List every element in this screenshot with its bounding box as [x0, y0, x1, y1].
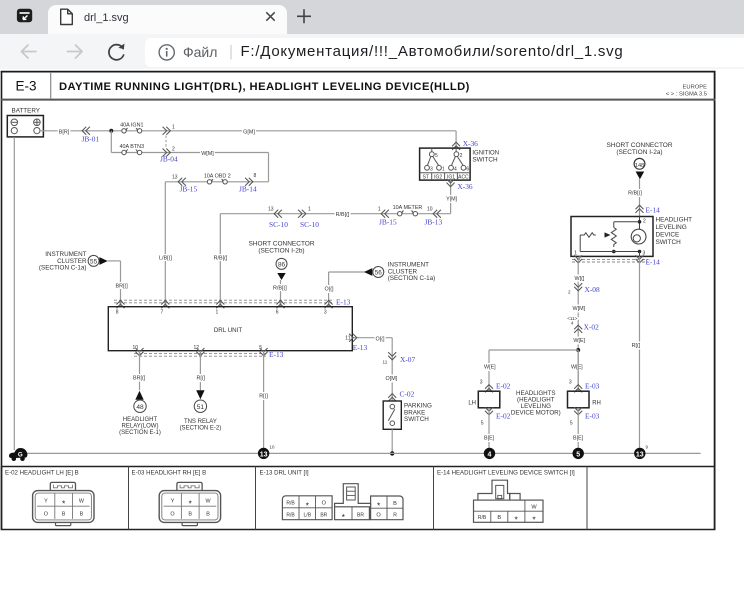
svg-text:(SECTION C-1a): (SECTION C-1a) [39, 265, 87, 272]
svg-text:Y[M]: Y[M] [446, 197, 458, 203]
svg-text:E-3: E-3 [15, 79, 36, 94]
svg-text:R: R [393, 513, 397, 519]
svg-text:*: * [306, 500, 310, 510]
svg-text:5: 5 [481, 421, 484, 427]
svg-text:56: 56 [375, 270, 383, 277]
svg-text:2: 2 [643, 219, 646, 225]
svg-text:3: 3 [569, 379, 572, 385]
svg-text:BR[(]: BR[(] [116, 284, 129, 290]
svg-text:R/B: R/B [286, 512, 295, 518]
svg-text:TNS RELAY: TNS RELAY [184, 419, 217, 425]
svg-text:4: 4 [454, 167, 457, 173]
svg-text:RELAY(LOW): RELAY(LOW) [122, 423, 159, 429]
svg-text:1: 1 [308, 207, 311, 213]
svg-text:G[M]: G[M] [243, 129, 255, 135]
svg-text:X-36: X-36 [463, 139, 478, 148]
svg-text:E-03: E-03 [585, 411, 600, 420]
svg-text:48: 48 [136, 404, 144, 411]
svg-text:< > : SIGMA 3.5: < > : SIGMA 3.5 [666, 92, 707, 98]
svg-text:51: 51 [197, 404, 205, 411]
svg-text:B: B [62, 511, 66, 517]
svg-text:*: * [532, 515, 536, 525]
svg-text:B[E]: B[E] [573, 435, 584, 441]
svg-text:86: 86 [278, 261, 286, 268]
svg-text:SC-10: SC-10 [300, 220, 319, 229]
svg-text:8: 8 [116, 309, 119, 315]
svg-text:SWITCH: SWITCH [472, 157, 498, 164]
svg-text:E-13: E-13 [336, 298, 351, 307]
svg-text:9: 9 [646, 445, 649, 450]
svg-text:*: * [377, 501, 381, 511]
svg-text:*: * [342, 512, 346, 522]
svg-text:L/B[(]: L/B[(] [159, 255, 172, 261]
svg-text:E-14 HEADLIGHT LEVELING DEVICE: E-14 HEADLIGHT LEVELING DEVICE SWITCH [I… [437, 470, 575, 477]
svg-text:1: 1 [442, 167, 445, 173]
svg-text:E-02: E-02 [496, 381, 511, 390]
svg-text:DAYTIME RUNNING LIGHT(DRL), HE: DAYTIME RUNNING LIGHT(DRL), HEADLIGHT LE… [59, 81, 470, 93]
svg-text:JB-15: JB-15 [180, 184, 198, 193]
svg-text:JB-13: JB-13 [425, 218, 443, 227]
svg-text:10: 10 [427, 207, 433, 213]
svg-text:R/B: R/B [286, 501, 295, 507]
svg-text:R/B: R/B [478, 515, 487, 521]
svg-text:W: W [79, 499, 85, 505]
svg-text:7: 7 [161, 309, 164, 315]
svg-text:SHORT CONNECTOR: SHORT CONNECTOR [248, 241, 314, 248]
svg-text:O[(]: O[(] [376, 336, 385, 342]
svg-text:13: 13 [260, 451, 268, 458]
svg-text:JB-15: JB-15 [379, 218, 397, 227]
svg-text:X-36: X-36 [457, 182, 472, 191]
svg-text:3: 3 [480, 379, 483, 385]
svg-text:R/B[(]: R/B[(] [336, 212, 350, 218]
svg-text:W[E]: W[E] [571, 364, 583, 370]
svg-text:O: O [376, 513, 381, 519]
svg-text:R/B[(]: R/B[(] [628, 191, 642, 197]
svg-text:R/B[(]: R/B[(] [214, 255, 228, 261]
svg-text:8: 8 [254, 173, 257, 179]
svg-text:E-14: E-14 [646, 206, 661, 215]
svg-text:JB-04: JB-04 [160, 155, 178, 164]
svg-text:B[R]: B[R] [59, 129, 70, 135]
svg-text:4: 4 [488, 451, 492, 458]
svg-text:Y: Y [44, 499, 48, 505]
svg-text:JB-14: JB-14 [239, 184, 257, 193]
svg-text:DEVICE MOTOR): DEVICE MOTOR) [511, 410, 561, 417]
svg-text:W: W [531, 505, 537, 511]
svg-text:1: 1 [378, 207, 381, 213]
svg-text:RH: RH [592, 400, 601, 406]
svg-text:E-03: E-03 [585, 381, 600, 390]
svg-text:55: 55 [90, 258, 98, 265]
svg-text:W[E]: W[E] [573, 338, 585, 344]
svg-text:5: 5 [435, 153, 438, 159]
svg-text:2: 2 [568, 290, 571, 295]
svg-text:(SECTION I-2a): (SECTION I-2a) [616, 149, 662, 156]
svg-text:R[(]: R[(] [632, 343, 641, 349]
svg-text:W[(]: W[(] [575, 276, 585, 282]
svg-text:X-08: X-08 [585, 285, 600, 294]
svg-text:3: 3 [324, 309, 327, 315]
svg-text:BR[(]: BR[(] [133, 375, 146, 381]
svg-text:13: 13 [172, 175, 178, 181]
svg-text:B[E]: B[E] [484, 435, 495, 441]
svg-text:W[E]: W[E] [484, 364, 496, 370]
svg-text:O: O [44, 511, 48, 517]
svg-text:2: 2 [172, 146, 175, 152]
svg-text:10: 10 [270, 445, 275, 450]
svg-text:X-02: X-02 [584, 323, 599, 332]
svg-text:E-02: E-02 [496, 411, 511, 420]
svg-text:(SECTION I-2b): (SECTION I-2b) [258, 248, 304, 255]
svg-text:O[(]: O[(] [325, 287, 334, 293]
svg-text:ACC: ACC [458, 175, 469, 181]
svg-text:O[M]: O[M] [386, 376, 398, 382]
svg-text:(SECTION E-2): (SECTION E-2) [180, 425, 222, 431]
svg-text:E-03 HEADLIGHT RH [E] B: E-03 HEADLIGHT RH [E] B [132, 470, 207, 477]
svg-text:3: 3 [430, 167, 433, 173]
svg-text:G: G [18, 452, 23, 459]
svg-text:SWITCH: SWITCH [404, 416, 429, 423]
svg-text:DRL UNIT: DRL UNIT [214, 327, 243, 334]
svg-text:HEADLIGHT: HEADLIGHT [656, 217, 693, 224]
svg-text:E-13: E-13 [353, 343, 368, 352]
svg-text:40A IGN1: 40A IGN1 [120, 122, 143, 128]
svg-text:(SECTION E-1): (SECTION E-1) [119, 430, 161, 436]
svg-text:13: 13 [636, 451, 644, 458]
svg-text:IG2: IG2 [434, 175, 442, 181]
svg-text:R[(]: R[(] [197, 375, 206, 381]
svg-text:ST: ST [423, 175, 429, 181]
svg-text:W[M]: W[M] [573, 306, 586, 312]
svg-text:BR: BR [357, 512, 364, 518]
svg-text:148: 148 [635, 163, 644, 169]
svg-text:*: * [62, 498, 66, 508]
svg-text:SHORT CONNECTOR: SHORT CONNECTOR [606, 142, 672, 149]
svg-text:10A OBD 2: 10A OBD 2 [204, 173, 231, 179]
svg-text:E-02 HEADLIGHT LH [E] B: E-02 HEADLIGHT LH [E] B [5, 470, 79, 477]
svg-text:13: 13 [268, 207, 274, 213]
svg-text:10A METER: 10A METER [393, 205, 423, 211]
svg-text:2: 2 [460, 153, 463, 159]
svg-text:B: B [80, 511, 84, 517]
svg-text:BR: BR [320, 512, 327, 518]
svg-text:SWITCH: SWITCH [656, 239, 682, 246]
svg-text:LH: LH [468, 400, 476, 406]
svg-text:1: 1 [172, 125, 175, 131]
svg-text:6: 6 [466, 167, 469, 173]
svg-text:40A BTN3: 40A BTN3 [120, 144, 145, 150]
svg-text:JB-01: JB-01 [82, 134, 100, 143]
svg-text:DEVICE: DEVICE [656, 232, 680, 239]
svg-text:X-07: X-07 [400, 355, 415, 364]
svg-text:1: 1 [216, 309, 219, 315]
svg-text:L/B: L/B [304, 512, 312, 518]
svg-text:11: 11 [383, 359, 388, 364]
svg-text:SC-10: SC-10 [269, 220, 288, 229]
svg-text:E-13: E-13 [269, 350, 284, 359]
svg-text:R/B[(]: R/B[(] [273, 286, 287, 292]
svg-text:W[M]: W[M] [201, 151, 214, 157]
svg-text:B: B [393, 501, 397, 507]
svg-text:EUROPE: EUROPE [683, 85, 708, 91]
svg-text:5: 5 [576, 451, 580, 458]
svg-text:BATTERY: BATTERY [12, 108, 41, 115]
svg-text:(SECTION C-1a): (SECTION C-1a) [388, 275, 436, 282]
svg-text:5: 5 [570, 421, 573, 427]
svg-text:R[(]: R[(] [259, 393, 268, 399]
svg-text:*: * [515, 515, 519, 525]
svg-text:HEADLIGHT: HEADLIGHT [123, 417, 158, 423]
svg-text:C-02: C-02 [400, 389, 415, 398]
svg-text:E-14: E-14 [646, 257, 661, 266]
svg-text:B: B [497, 515, 501, 521]
svg-text:6: 6 [276, 309, 279, 315]
svg-text:E-13 DRL UNIT [I]: E-13 DRL UNIT [I] [260, 470, 309, 477]
svg-text:O: O [322, 501, 327, 507]
svg-text:4: 4 [571, 321, 574, 326]
svg-text:LEVELING: LEVELING [656, 224, 687, 231]
